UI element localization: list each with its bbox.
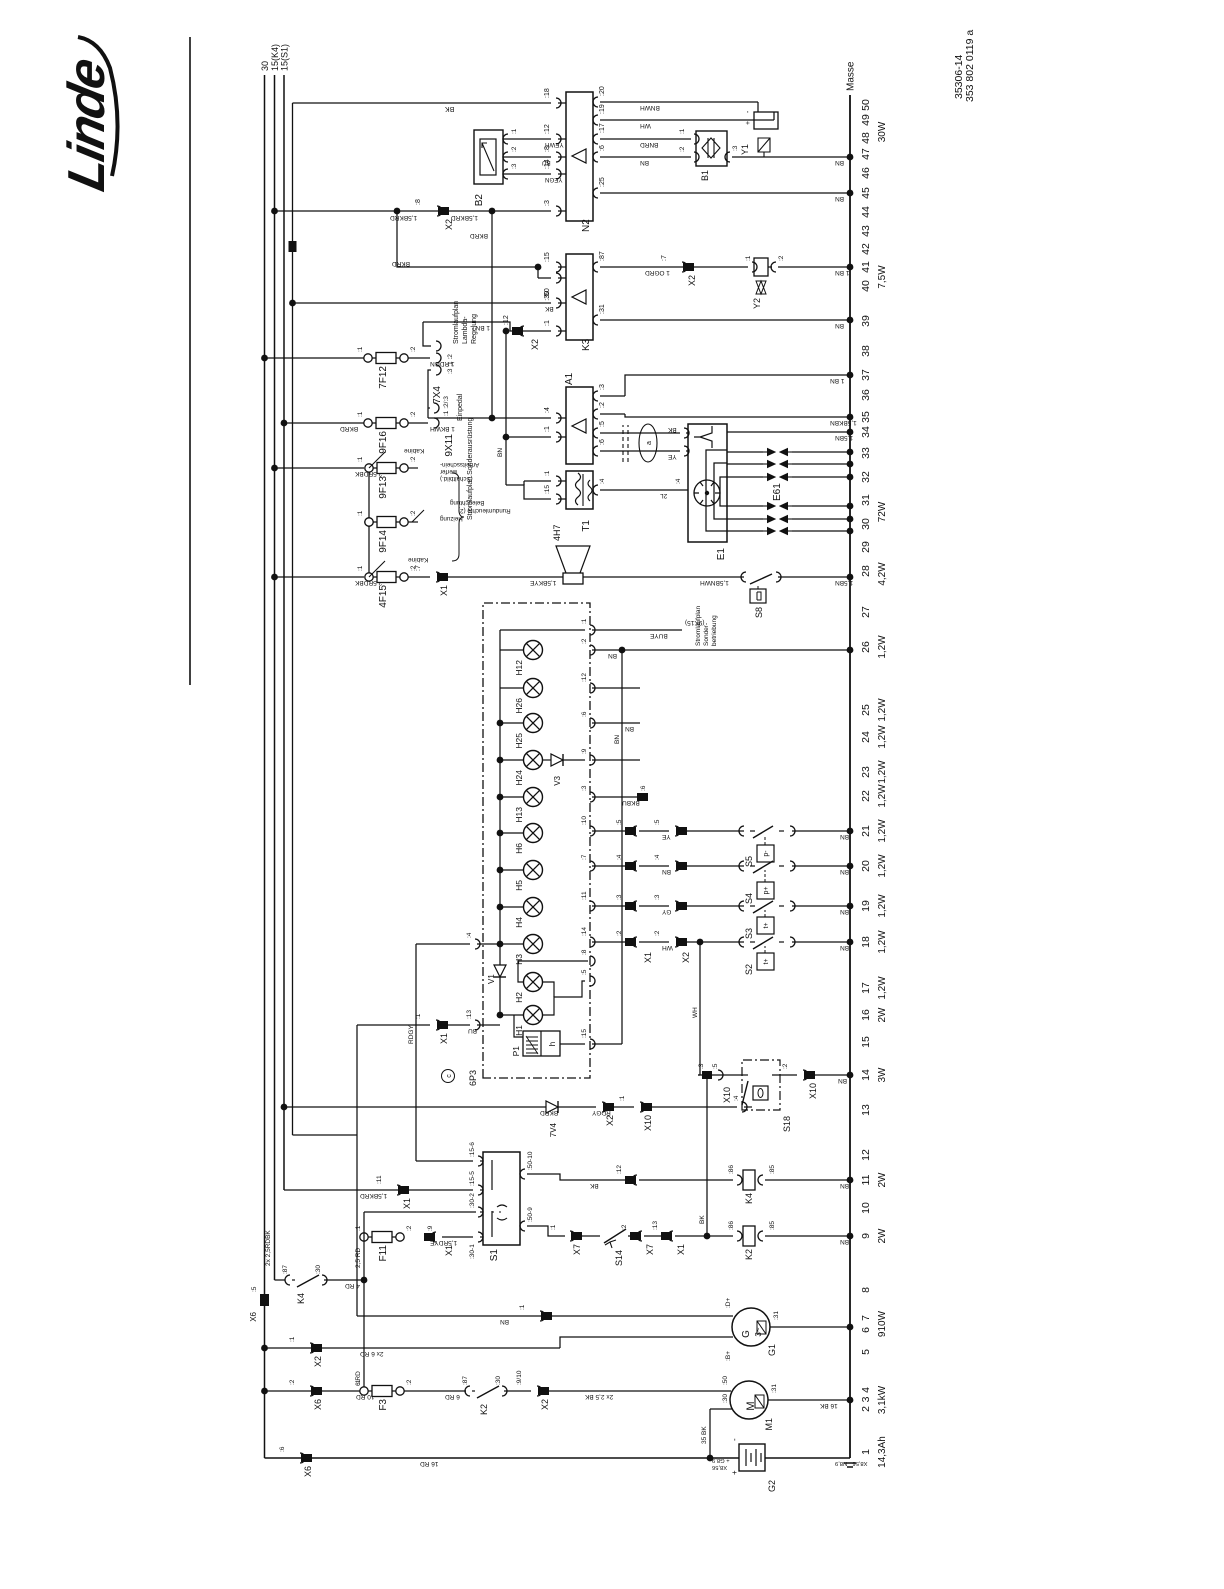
svg-text::5: :5 — [599, 421, 606, 427]
svg-text::18: :18 — [544, 88, 551, 98]
svg-text:X2: X2 — [540, 1399, 550, 1410]
junction dot Masse path 37 — [847, 372, 854, 379]
pin :9 stub path 23 — [590, 755, 595, 765]
connector X10:2 — [804, 1071, 815, 1079]
svg-text:28: 28 — [860, 565, 872, 577]
svg-text::30-2: :30-2 — [469, 1193, 476, 1208]
brace special equipment fuses — [452, 473, 464, 561]
instrument panel 6P3 box — [483, 603, 590, 1078]
pin :6 stub path 24 — [590, 718, 595, 728]
svg-text:Einpedal: Einpedal — [457, 393, 464, 421]
svg-text:X7: X7 — [645, 1244, 655, 1255]
pin N2:19 wire to Y1 — [593, 115, 598, 125]
junction dot rail 15S1 fuse 9F16 — [281, 420, 288, 427]
BN bus from P1 pin :15 — [592, 1043, 622, 1045]
svg-text::12: :12 — [503, 315, 510, 325]
svg-text:t+: t+ — [763, 922, 770, 928]
pin :11 wire path — [590, 901, 595, 911]
svg-text::1: :1 — [745, 255, 752, 261]
svg-text::11: :11 — [581, 891, 588, 900]
svg-text:29: 29 — [860, 541, 872, 553]
pin A1:5 wire to E1 — [593, 428, 598, 438]
certification mark c — [442, 1070, 455, 1083]
svg-text:1,5BKRD: 1,5BKRD — [451, 214, 478, 221]
svg-text::1: :1 — [619, 1095, 626, 1101]
svg-text::86: :86 — [728, 1165, 735, 1174]
svg-text:1,5BKRD: 1,5BKRD — [390, 214, 417, 221]
glow plug wire path 4 — [727, 505, 763, 507]
connector X6:2 — [311, 1387, 322, 1395]
svg-text:c: c — [446, 1074, 453, 1078]
P1 output to pin :15 — [560, 1043, 585, 1045]
glow plug wire path 1 — [727, 451, 763, 453]
svg-text::8: :8 — [415, 199, 422, 205]
svg-text::30: :30 — [722, 1394, 729, 1403]
svg-text:4: 4 — [860, 1387, 872, 1393]
svg-text:BK: BK — [445, 105, 455, 112]
svg-text:2W: 2W — [877, 1172, 888, 1188]
switch contact — [739, 826, 744, 836]
svg-text:45: 45 — [860, 187, 872, 199]
S1 internal bracket 30 — [491, 1211, 493, 1237]
wire F11 to S1:30-1 — [442, 1236, 473, 1238]
svg-text:18: 18 — [860, 936, 872, 948]
connector X1:2 — [625, 938, 636, 946]
svg-text::19: :19 — [599, 104, 606, 114]
svg-text:2W: 2W — [877, 1007, 888, 1023]
svg-text:2x 6 RD: 2x 6 RD — [360, 1350, 384, 1357]
connector X1:13 — [661, 1232, 672, 1240]
relay coil K2 — [737, 1231, 742, 1241]
svg-text::4: :4 — [466, 932, 473, 938]
svg-text:X10: X10 — [643, 1115, 653, 1131]
svg-text:14: 14 — [860, 1069, 872, 1081]
E1 entry pins — [684, 428, 689, 438]
svg-text:48: 48 — [860, 132, 872, 144]
junction dot Masse glow plug 5 — [847, 516, 854, 523]
svg-text:2x 2,5 BK: 2x 2,5 BK — [584, 1393, 613, 1400]
svg-text:7: 7 — [860, 1315, 872, 1321]
svg-text::50-9: :50-9 — [527, 1207, 534, 1222]
glow plug controller B1 — [696, 131, 727, 166]
svg-text:+: + — [730, 1470, 739, 1475]
svg-text:41: 41 — [860, 261, 872, 273]
svg-text:X2: X2 — [530, 339, 540, 350]
svg-text:E1: E1 — [716, 548, 727, 561]
pin :10 wire path — [590, 826, 595, 836]
BKRD column to A1:4 — [491, 211, 493, 418]
svg-text::3: :3 — [732, 145, 739, 151]
lamp H6 — [524, 824, 543, 843]
wire to switch — [677, 941, 744, 943]
junction dot Masse path 47 — [847, 154, 854, 161]
svg-text:Stromlaufplan Sonderausrüstung: Stromlaufplan Sonderausrüstung — [467, 418, 474, 520]
connector X1:12 — [625, 1176, 636, 1184]
svg-text:11: 11 — [860, 1174, 872, 1185]
svg-text:9F13: 9F13 — [378, 476, 389, 499]
wire S18 to X10:2 — [772, 1074, 797, 1076]
wire fuse 7F12 to 7X4 — [408, 357, 430, 359]
relay K3 — [566, 254, 593, 340]
junction dot Masse glow plug 6 — [847, 528, 854, 535]
pin S1:30-1 — [478, 1232, 483, 1242]
S18 blade — [742, 1074, 748, 1076]
junction dot Masse path 39 — [847, 317, 854, 324]
junction dot A1:1 / T1 feed — [503, 434, 510, 441]
svg-text:S14: S14 — [614, 1250, 624, 1266]
svg-text:Lambda-: Lambda- — [462, 316, 469, 344]
pin :3 wire path 22 — [590, 792, 595, 802]
connector X2:5 — [676, 827, 687, 835]
svg-text::2: :2 — [289, 1379, 296, 1385]
svg-text:3,1kW: 3,1kW — [877, 1385, 888, 1414]
connector X1:7 — [437, 573, 448, 581]
svg-text::4: :4 — [599, 478, 606, 484]
svg-text:K2: K2 — [744, 1249, 754, 1260]
svg-text:Kabine: Kabine — [408, 556, 429, 563]
svg-text:7X4: 7X4 — [432, 386, 443, 404]
junction dot Masse glow plug 2 — [847, 461, 854, 468]
svg-text:X6: X6 — [303, 1466, 313, 1477]
wire fuse 4F15 to connector X1:7 — [408, 576, 430, 578]
wire to A1:4 — [428, 417, 551, 419]
svg-text::31: :31 — [599, 304, 606, 314]
junction dot Masse path 28 — [847, 574, 854, 581]
junction dot Masse paths 2-4 — [847, 1397, 854, 1404]
svg-text:X10: X10 — [722, 1087, 732, 1103]
svg-text:X1: X1 — [402, 1198, 412, 1209]
wire K4:30 to RD bus — [324, 1279, 364, 1281]
svg-text:WH: WH — [662, 944, 673, 951]
svg-text:1 BN: 1 BN — [830, 377, 845, 384]
pin K3:1 — [556, 326, 561, 336]
lamp H24 — [524, 751, 543, 770]
wire down to A1:1 — [506, 436, 551, 438]
fuse 4F15 — [365, 573, 373, 581]
svg-text:Y1: Y1 — [740, 144, 750, 155]
pin N2:3 — [556, 206, 561, 216]
switch actuator box S5 — [757, 845, 774, 862]
junction dot bus H25 — [497, 720, 504, 727]
svg-text::87: :87 — [282, 1265, 289, 1274]
svg-text:4,2W: 4,2W — [877, 562, 888, 586]
svg-text:1 BN: 1 BN — [835, 269, 850, 276]
svg-text:1,2W: 1,2W — [877, 819, 888, 843]
svg-text::50-10: :50-10 — [527, 1151, 534, 1170]
svg-text::1: :1 — [355, 1379, 362, 1385]
connector 7X4 pin :1 — [436, 353, 441, 363]
wire to X10:1 — [604, 1106, 634, 1108]
junction dot rail 30 fuse 7F12 — [261, 355, 268, 362]
pin N2:20 wire to Y1 — [593, 97, 598, 107]
junction dot on rail 15K4 for X2:8 wire — [271, 208, 278, 215]
svg-text:X1: X1 — [439, 1033, 449, 1044]
junction dot Masse S2 — [847, 939, 854, 946]
pin S1:15-6 — [478, 1156, 483, 1166]
WH wire path 18 to S18 — [699, 942, 701, 1075]
svg-text::2: :2 — [581, 638, 588, 644]
svg-text::2: :2 — [778, 255, 785, 261]
svg-text::3: :3 — [698, 1063, 705, 1069]
svg-text:YE: YE — [667, 453, 676, 460]
E1 spark symbol — [694, 426, 712, 448]
svg-text:F11: F11 — [378, 1245, 389, 1262]
fuse chain bus — [368, 468, 370, 577]
junction dot bus H5 — [497, 867, 504, 874]
pin A1:3 wire to Masse path 37 — [593, 391, 598, 401]
svg-text:25: 25 — [860, 704, 872, 716]
pin :4 instrument box — [475, 939, 480, 949]
svg-text:16 BK: 16 BK — [819, 1402, 837, 1409]
M1:30 wire — [709, 1409, 711, 1458]
svg-text::12: :12 — [544, 124, 551, 134]
glow plug wire path 5 — [727, 518, 763, 520]
wire switch to Masse — [792, 830, 850, 832]
control unit N2 — [566, 92, 593, 221]
connector X2:8 — [438, 207, 449, 215]
svg-text:K4: K4 — [296, 1293, 306, 1304]
svg-text::1: :1 — [355, 1225, 362, 1231]
svg-text:2L: 2L — [660, 492, 668, 499]
svg-text::1: :1 — [289, 1336, 296, 1342]
svg-text:M1: M1 — [764, 1418, 774, 1431]
pin :15 on box edge — [590, 1039, 595, 1049]
junction dot A1:4 / BKRD — [489, 415, 496, 422]
connector 9X11 second pin — [434, 403, 439, 413]
svg-text:1,5BKYE: 1,5BKYE — [529, 579, 556, 586]
svg-text::7: :7 — [415, 565, 422, 571]
svg-text:1 BKWH: 1 BKWH — [430, 425, 455, 432]
svg-text:10: 10 — [860, 1202, 872, 1214]
bus exit to pin :1 — [500, 629, 585, 631]
svg-text:H13: H13 — [514, 807, 524, 823]
svg-text::85: :85 — [769, 1165, 776, 1174]
lamp H5 — [524, 861, 543, 880]
B2 pin :1 wire to N2:12 — [503, 138, 551, 140]
svg-text::2: :2 — [616, 930, 623, 936]
fuse 7F12 — [364, 354, 372, 362]
hour meter P1 — [523, 1031, 560, 1056]
S1 key symbol — [497, 1205, 507, 1220]
svg-text:X10: X10 — [808, 1083, 818, 1099]
connector 9X11 pin — [434, 418, 439, 428]
glow plug wire path 3 — [727, 476, 763, 478]
svg-text:4F15: 4F15 — [378, 585, 389, 608]
svg-text:72W: 72W — [877, 501, 888, 522]
svg-text:37: 37 — [860, 369, 872, 381]
wire K4 coil to Masse path 11 — [765, 1179, 850, 1181]
wire to Masse path 14 — [805, 1074, 850, 1076]
svg-text::B+: :B+ — [725, 1351, 732, 1361]
svg-text:t+: t+ — [763, 958, 770, 964]
svg-text:B2: B2 — [474, 194, 485, 207]
N2 triangle symbol — [572, 149, 586, 163]
wire to X1:13 — [644, 1235, 667, 1237]
battery positive cable rail 30 — [265, 1457, 740, 1459]
pin A1:6 wire to E1 — [593, 446, 598, 456]
svg-text:9X11: 9X11 — [444, 434, 455, 457]
svg-text:BN: BN — [640, 159, 649, 166]
fuse 9F14 — [365, 518, 373, 526]
svg-text:31: 31 — [860, 494, 872, 506]
ignition control unit A1 — [566, 387, 593, 464]
power rail 15(S1) — [283, 75, 285, 1190]
svg-text:20: 20 — [860, 860, 872, 872]
logo underline swash — [78, 37, 118, 176]
rail 15S1 drop to S1 — [284, 1189, 473, 1191]
svg-text:X6: X6 — [249, 1311, 258, 1321]
svg-text:1,2W: 1,2W — [877, 976, 888, 1000]
svg-text::13: :13 — [652, 1221, 659, 1230]
H2 to H1 link — [543, 982, 554, 997]
connector 7X4 pin :2 — [436, 341, 441, 351]
wire switch to Masse — [792, 941, 850, 943]
lamp supply bus — [499, 630, 501, 1015]
wire 7X4 branch to K3:1 — [423, 322, 551, 331]
svg-text::1: :1 — [550, 1224, 557, 1230]
svg-text:9: 9 — [860, 1233, 872, 1239]
lamp H12 — [524, 641, 543, 660]
wire horn to switch S8 — [583, 576, 744, 578]
wire supply line to K3:50 — [293, 302, 552, 304]
solenoid valve Y1 — [757, 102, 759, 112]
svg-text::6: :6 — [581, 711, 588, 717]
inline connector X6:5 on rail 30 — [260, 1294, 269, 1306]
E1 nested frame 2 — [714, 463, 727, 519]
pin K3:87 wire to Y2 and Masse path 41 — [593, 262, 598, 272]
pin K3:50 — [556, 298, 561, 308]
pin :7 wire path — [590, 861, 595, 871]
S8 button box — [750, 589, 766, 603]
junction dot Masse path 41 — [847, 264, 854, 271]
svg-text::31: :31 — [773, 1311, 780, 1320]
svg-text::1: :1 — [357, 510, 364, 516]
svg-text:S4: S4 — [744, 893, 754, 904]
wire K2 to X2:9/10 — [504, 1390, 531, 1392]
svg-text:30W: 30W — [877, 121, 888, 142]
junction dot bus H24 — [497, 757, 504, 764]
pin T1:1 — [524, 480, 551, 482]
svg-text::4: :4 — [675, 478, 682, 484]
svg-text::3: :3 — [581, 785, 588, 791]
connector blob path 22 — [637, 793, 648, 801]
junction dot Masse glow plug 4 — [847, 503, 854, 510]
svg-text::3 :1 :2: :3 :1 :2 — [447, 354, 454, 374]
Masse rail — [849, 95, 851, 1458]
svg-text:30: 30 — [260, 61, 270, 71]
junction dot Masse S5 — [847, 828, 854, 835]
pin :8 on box edge — [590, 956, 595, 966]
svg-text:-: - — [730, 1438, 739, 1441]
svg-text::5: :5 — [712, 1063, 719, 1069]
svg-text::3: :3 — [616, 894, 623, 900]
connector blob on supply line — [289, 241, 297, 252]
svg-text:16: 16 — [860, 1009, 872, 1021]
rail 15K4 drop to K4 contact — [275, 1279, 286, 1281]
svg-text::4: :4 — [733, 1095, 740, 1101]
junction dot Masse S4 — [847, 863, 854, 870]
svg-text:BN: BN — [835, 195, 844, 202]
wire to switch — [677, 865, 744, 867]
svg-text:BN: BN — [625, 725, 634, 732]
svg-text:7V4: 7V4 — [549, 1122, 558, 1137]
svg-text:2W: 2W — [877, 1228, 888, 1244]
wire to X2 — [639, 830, 669, 832]
header separator line — [189, 37, 191, 685]
svg-text:910W: 910W — [877, 1310, 888, 1337]
junction dot bus H1 — [497, 1012, 504, 1019]
pin A1:2 wire to Masse path 35 — [593, 409, 598, 419]
svg-text:BN: BN — [608, 652, 617, 659]
connector X2:3 — [676, 902, 687, 910]
svg-text:16 RD: 16 RD — [420, 1460, 439, 1467]
svg-text:K3: K3 — [581, 338, 592, 351]
pin :12 stub path 25 — [590, 683, 595, 693]
svg-text::2: :2 — [410, 411, 417, 417]
svg-text:15(K4): 15(K4) — [270, 44, 280, 71]
svg-text::2: :2 — [406, 1379, 413, 1385]
svg-text::1: :1 — [357, 411, 364, 417]
svg-text::7: :7 — [661, 255, 668, 261]
junction dot rail 15S1 path 13 — [281, 1104, 288, 1111]
svg-text:H3: H3 — [514, 954, 524, 965]
connector 7X4 pin :3 — [436, 365, 441, 375]
junction dot bus H4 — [497, 904, 504, 911]
svg-text:BN: BN — [497, 448, 504, 457]
ignition coil T1 — [566, 471, 593, 509]
svg-text::11: :11 — [376, 1175, 383, 1184]
relay coil K4 — [737, 1175, 742, 1185]
svg-text:BUYE: BUYE — [649, 632, 667, 639]
svg-text:Y2: Y2 — [752, 298, 762, 309]
svg-text::15: :15 — [581, 1029, 588, 1038]
svg-text:6 RD: 6 RD — [445, 1393, 460, 1400]
branch to Kabine — [369, 561, 385, 577]
S1 internal bracket 15 — [491, 1160, 493, 1190]
svg-text:N2: N2 — [581, 219, 592, 232]
wire into S18 — [642, 1106, 737, 1108]
ground symbol Masse end — [844, 1463, 856, 1467]
junction dot supply line K3:50 — [289, 300, 296, 307]
svg-text::3: :3 — [511, 163, 518, 169]
svg-text::30: :30 — [315, 1265, 322, 1274]
svg-text:Linde: Linde — [58, 54, 116, 196]
wire Y2 to Masse path 41 — [778, 266, 850, 268]
svg-text:42: 42 — [860, 243, 872, 255]
svg-text:9F14: 9F14 — [378, 530, 389, 553]
pin :5 on box edge — [590, 976, 595, 986]
shield dashes on ignition wires — [622, 425, 624, 462]
svg-text::3: :3 — [654, 894, 661, 900]
svg-text::14: :14 — [581, 927, 588, 936]
svg-text:33: 33 — [860, 447, 872, 459]
pin N2:18 — [556, 98, 561, 108]
svg-text:6: 6 — [860, 1327, 872, 1333]
svg-text:1,2W: 1,2W — [877, 635, 888, 659]
junction dot Masse glow plug 1 — [847, 449, 854, 456]
svg-text:BK: BK — [544, 305, 553, 312]
switch contact — [739, 901, 744, 911]
svg-text::87: :87 — [462, 1376, 469, 1385]
junction dot Masse S3 — [847, 903, 854, 910]
lamp H25 — [524, 714, 543, 733]
svg-text:X2: X2 — [605, 1115, 615, 1126]
svg-text:BN: BN — [835, 322, 844, 329]
9F13 output labels — [408, 467, 418, 469]
svg-text::1: :1 — [544, 470, 551, 476]
pin :4 S18 entry — [742, 1102, 747, 1112]
connector X1:11 — [398, 1186, 409, 1194]
